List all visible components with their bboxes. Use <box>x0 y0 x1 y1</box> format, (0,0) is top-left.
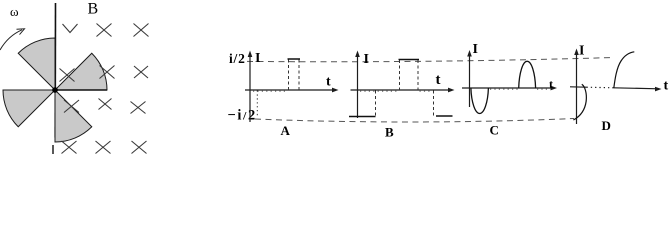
svg-text:I: I <box>579 44 584 59</box>
field cross (103,147) <box>96 141 111 154</box>
svg-text:t: t <box>549 77 553 91</box>
fan blade left (180-225 deg) <box>3 90 55 127</box>
field cross (71.5,106) <box>64 100 79 113</box>
graph B pulse right dashed edge <box>417 60 419 90</box>
svg-text:t: t <box>326 75 331 90</box>
field cross (69,147) <box>62 141 77 154</box>
dashed -i/2 reference line across graphs <box>255 119 574 122</box>
field cross row1 v-mark <box>63 24 78 33</box>
svg-text:ω: ω <box>10 4 19 19</box>
svg-text:i/2: i/2 <box>229 51 246 66</box>
right blade lower edge emphasis <box>55 89 107 91</box>
field cross (139,147) <box>132 141 147 154</box>
fan blade bottom (270-315 deg) <box>55 90 92 142</box>
graph B pulse top <box>399 59 420 61</box>
svg-text:I: I <box>255 51 260 66</box>
svg-text:I: I <box>364 52 369 67</box>
graph C zero-segment dots on axis <box>490 88 518 90</box>
graph B dashed dropper 2 <box>433 91 435 118</box>
svg-text:B: B <box>385 125 394 140</box>
field cross (107,72) <box>100 66 115 79</box>
dashed i/2 reference line across graphs <box>247 58 614 62</box>
svg-text:B: B <box>88 1 99 18</box>
graph C x-axis <box>462 87 554 89</box>
graph A x-axis <box>245 89 336 91</box>
svg-text:I: I <box>473 42 478 57</box>
svg-text:−i/2: −i/2 <box>228 108 257 124</box>
field cross (67,75) <box>60 69 75 82</box>
graph A pulse top <box>288 58 301 60</box>
fan blade top-left (90-135 deg) <box>18 38 55 90</box>
graph A dotted drop at t0 <box>256 91 258 118</box>
graph B y-axis <box>357 54 359 118</box>
graph A y-axis <box>249 54 251 122</box>
graph B x-axis <box>351 89 452 91</box>
hub dot <box>52 87 58 93</box>
graph D x-axis solid left <box>570 86 587 88</box>
fan blade right (0-45 deg) <box>55 53 107 90</box>
graph B negative segment 2 <box>436 115 453 117</box>
graph B dashed riser 1 <box>375 91 377 118</box>
axis line (vertical through wheel) <box>54 3 56 138</box>
svg-text:t: t <box>664 79 669 94</box>
graph A pulse left dashed edge <box>288 60 290 91</box>
graph A pulse right dashed edge <box>298 60 300 91</box>
graph D negative quarter-wave <box>573 84 586 120</box>
axis dash below <box>52 145 54 154</box>
graph D x-axis dotted middle <box>587 86 614 89</box>
field cross (105,104) <box>99 99 112 110</box>
graph C positive half-sine lobe <box>519 61 536 88</box>
graph B negative segment 1 <box>349 116 376 118</box>
graph B zero-segment dots on axis <box>360 90 398 92</box>
svg-text:t: t <box>436 72 441 88</box>
graph C y-axis <box>469 54 471 108</box>
rotation arrow <box>0 30 22 50</box>
svg-text:C: C <box>490 123 499 138</box>
graph C negative half-sine lobe <box>471 88 489 113</box>
graph D positive quarter-wave <box>614 52 635 88</box>
graph D y-axis <box>576 52 578 124</box>
svg-text:A: A <box>281 123 291 138</box>
svg-text:D: D <box>602 118 611 133</box>
graph D x-axis solid right <box>614 88 659 89</box>
field cross (141,72) <box>134 66 148 78</box>
field cross (104,30) <box>97 24 112 37</box>
graph B pulse left dashed edge <box>399 60 401 90</box>
field cross (138,107.5) <box>131 102 146 114</box>
graph A zero-segment dots on axis <box>253 90 288 92</box>
field cross (141,30) <box>134 24 149 37</box>
